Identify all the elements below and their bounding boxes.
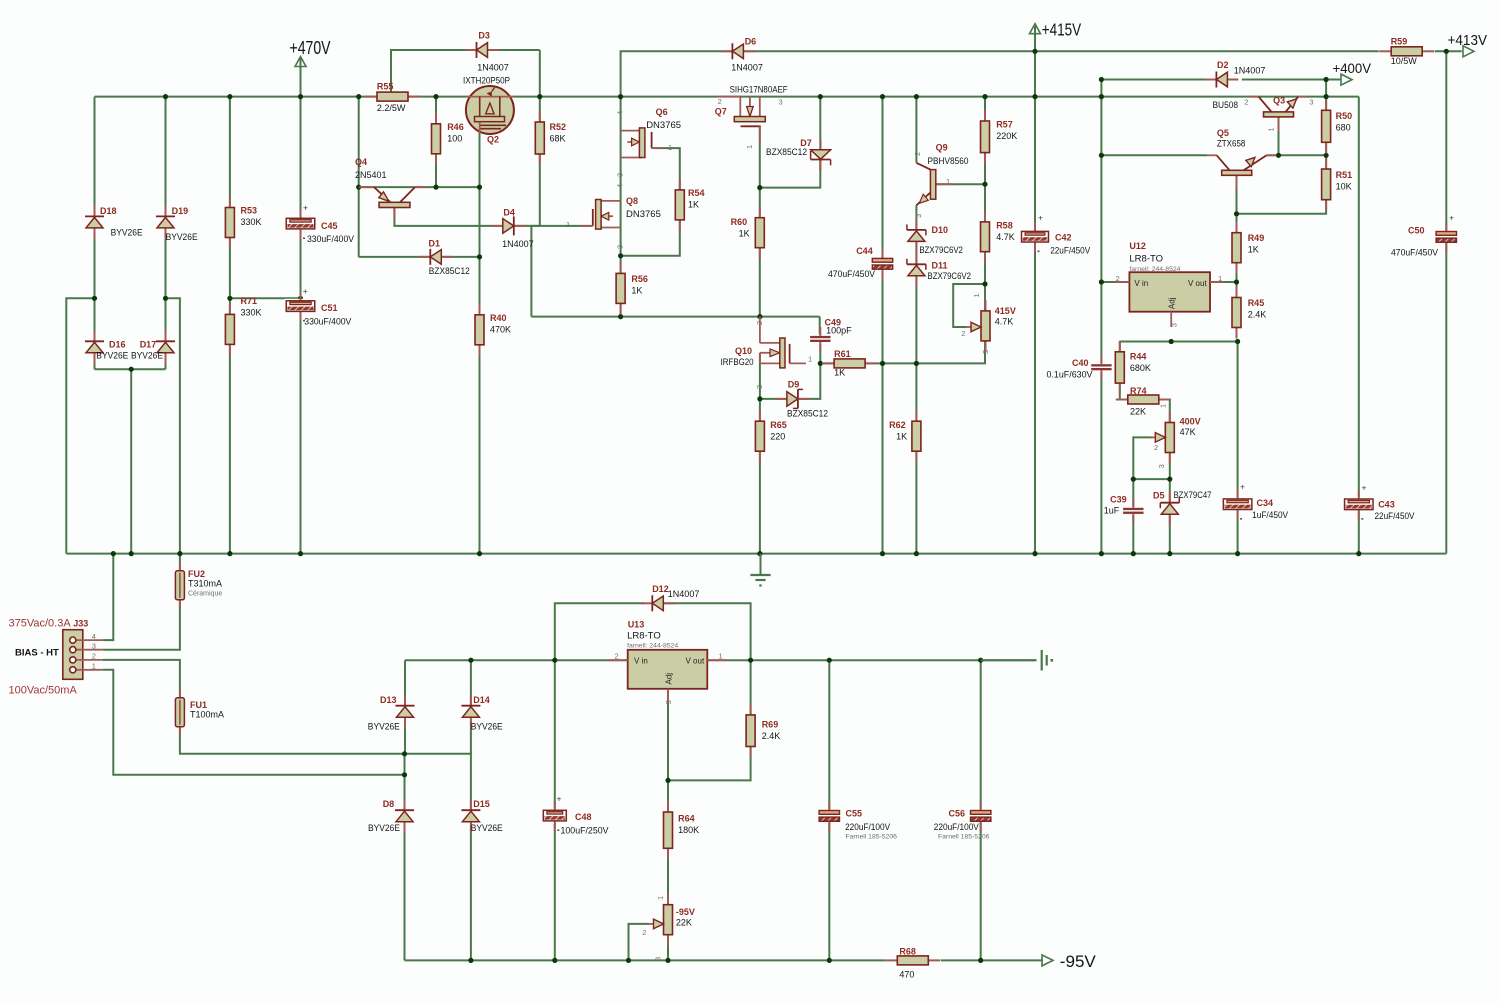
transistor Q9 bbox=[913, 143, 969, 218]
junction bbox=[1099, 94, 1104, 99]
junction bbox=[880, 94, 885, 99]
capacitor C45 bbox=[285, 203, 354, 245]
diode D15 bbox=[461, 799, 502, 833]
junction bbox=[468, 658, 473, 663]
wire C39/D5 row bbox=[1133, 478, 1170, 480]
wire D7 bottom row bbox=[760, 161, 821, 188]
wire D2 row bbox=[1101, 79, 1207, 81]
wire C34 column bbox=[1237, 342, 1239, 554]
transistor Q3 bbox=[1213, 96, 1314, 132]
wire R52 column bbox=[539, 50, 541, 226]
wire D19/D17 column bbox=[165, 97, 167, 370]
capacitor C48 bbox=[542, 794, 609, 836]
svg-text:1: 1 bbox=[946, 177, 950, 186]
svg-text:4.7K: 4.7K bbox=[995, 317, 1014, 327]
wire pot400/D5 column bbox=[1169, 451, 1171, 502]
svg-text:1: 1 bbox=[92, 662, 96, 671]
diode D5 bbox=[1153, 490, 1212, 526]
junction bbox=[978, 658, 983, 663]
wire Q8 gate loop bbox=[531, 226, 592, 317]
capacitor C49 bbox=[808, 318, 852, 351]
junction bbox=[1444, 49, 1449, 54]
svg-text:+: + bbox=[1038, 213, 1043, 223]
wire pin4 riser bbox=[103, 554, 114, 641]
junction bbox=[757, 396, 762, 401]
wire C45/C51 column bbox=[300, 58, 302, 554]
wire D1 row bbox=[359, 256, 480, 258]
svg-text:Q7: Q7 bbox=[715, 107, 727, 117]
svg-text:1: 1 bbox=[1218, 274, 1222, 283]
svg-text:R58: R58 bbox=[996, 221, 1013, 231]
svg-text:1K: 1K bbox=[1248, 244, 1259, 254]
svg-text:Q2: Q2 bbox=[487, 135, 499, 145]
wire bias vin rail bbox=[405, 659, 1037, 661]
svg-text:1: 1 bbox=[972, 293, 981, 297]
junction bbox=[1131, 477, 1136, 482]
svg-text:330uF/400V: 330uF/400V bbox=[307, 234, 354, 244]
svg-text:D3: D3 bbox=[478, 31, 490, 41]
svg-text:1: 1 bbox=[719, 652, 723, 661]
svg-text:220uF/100V: 220uF/100V bbox=[934, 822, 979, 832]
wire Q5 base column bbox=[1236, 175, 1238, 232]
junction bbox=[298, 94, 303, 99]
junction bbox=[982, 94, 987, 99]
svg-text:Adj: Adj bbox=[1168, 297, 1177, 309]
resistor R58 bbox=[981, 211, 1015, 263]
junction bbox=[618, 94, 623, 99]
svg-text:+: + bbox=[1362, 483, 1367, 493]
svg-text:3: 3 bbox=[1309, 98, 1313, 107]
svg-text:330K: 330K bbox=[241, 308, 262, 318]
svg-text:R74: R74 bbox=[1130, 386, 1147, 396]
resistor R65 bbox=[755, 410, 786, 462]
wire -95V rail right bbox=[941, 959, 1043, 961]
svg-text:22K: 22K bbox=[1130, 406, 1146, 416]
svg-text:3: 3 bbox=[981, 350, 990, 354]
junction bbox=[818, 94, 823, 99]
junction bbox=[227, 94, 232, 99]
svg-text:1: 1 bbox=[745, 145, 754, 149]
junction bbox=[827, 958, 832, 963]
svg-text:100uF/250V: 100uF/250V bbox=[561, 826, 609, 836]
diode D8 bbox=[368, 799, 414, 833]
diode D12 bbox=[641, 584, 699, 611]
junction bbox=[1324, 153, 1329, 158]
fuse FU2 bbox=[175, 563, 222, 608]
svg-text:Q10: Q10 bbox=[735, 346, 752, 356]
junction bbox=[818, 361, 823, 366]
svg-text:+470V: +470V bbox=[290, 37, 331, 58]
wire AC mid column bbox=[130, 369, 132, 553]
svg-text:0.1uF/630V: 0.1uF/630V bbox=[1047, 370, 1093, 380]
svg-text:R40: R40 bbox=[490, 313, 507, 323]
junction bbox=[1099, 153, 1104, 158]
wire Q3 base column bbox=[1278, 117, 1280, 155]
junction bbox=[1167, 551, 1172, 556]
junction bbox=[1131, 551, 1136, 556]
resistor R68 bbox=[885, 947, 940, 980]
junction bbox=[880, 551, 885, 556]
svg-text:BYV26E: BYV26E bbox=[111, 228, 143, 238]
svg-text:R60: R60 bbox=[731, 217, 748, 227]
wire R54 bottom row bbox=[621, 220, 680, 256]
junction bbox=[477, 551, 482, 556]
svg-text:D11: D11 bbox=[932, 260, 948, 270]
svg-text:1uF/450V: 1uF/450V bbox=[1252, 510, 1288, 520]
svg-text:470: 470 bbox=[899, 970, 914, 980]
svg-text:+400V: +400V bbox=[1333, 60, 1372, 76]
power +415V bbox=[1030, 20, 1082, 40]
resistor R74 bbox=[1116, 386, 1171, 417]
svg-text:C40: C40 bbox=[1072, 358, 1089, 368]
svg-text:R49: R49 bbox=[1248, 233, 1265, 243]
wire ground rail bbox=[66, 553, 1446, 555]
svg-text:C43: C43 bbox=[1378, 500, 1395, 510]
wire Q10 source column bbox=[759, 353, 761, 421]
wire pin2 to FU1 bbox=[103, 660, 180, 698]
junction bbox=[477, 254, 482, 259]
junction bbox=[982, 182, 987, 187]
junction bbox=[1169, 339, 1174, 344]
svg-text:470uF/450V: 470uF/450V bbox=[1391, 247, 1438, 257]
svg-text:BYV26E: BYV26E bbox=[166, 232, 198, 242]
svg-text:Q8: Q8 bbox=[626, 196, 638, 206]
svg-text:1K: 1K bbox=[834, 368, 845, 378]
label 375Vac bbox=[9, 617, 72, 629]
svg-text:22uF/450V: 22uF/450V bbox=[1050, 246, 1090, 256]
svg-text:D15: D15 bbox=[473, 799, 490, 809]
wire C55 column bbox=[828, 660, 830, 810]
svg-text:DN3765: DN3765 bbox=[626, 209, 661, 220]
diode D11 bbox=[907, 253, 971, 287]
junction bbox=[1167, 477, 1172, 482]
svg-text:2: 2 bbox=[913, 152, 922, 156]
svg-text:680K: 680K bbox=[1130, 363, 1151, 373]
svg-text:3: 3 bbox=[755, 385, 764, 389]
resistor R51 bbox=[1322, 158, 1353, 211]
svg-text:BYV26E: BYV26E bbox=[471, 721, 503, 731]
wire R60 column bbox=[759, 248, 761, 317]
svg-text:BYV26E: BYV26E bbox=[131, 351, 163, 361]
svg-text:2N5401: 2N5401 bbox=[355, 170, 387, 180]
svg-text:R45: R45 bbox=[1248, 298, 1265, 308]
transistor Q7 bbox=[715, 84, 788, 149]
svg-text:D4: D4 bbox=[503, 208, 515, 218]
svg-text:400V: 400V bbox=[1180, 417, 1201, 427]
svg-text:100Vac/50mA: 100Vac/50mA bbox=[9, 685, 78, 697]
capacitor C44 bbox=[828, 246, 895, 280]
wire Q4 collector row bbox=[359, 186, 480, 188]
svg-text:330uF/400V: 330uF/400V bbox=[304, 317, 351, 327]
svg-text:R56: R56 bbox=[631, 274, 648, 284]
junction bbox=[757, 551, 762, 556]
svg-text:IXTH20P50P: IXTH20P50P bbox=[463, 75, 510, 86]
svg-text:PBHV8560: PBHV8560 bbox=[928, 156, 969, 167]
wire C49 bottom bbox=[819, 344, 821, 364]
svg-text:1K: 1K bbox=[896, 432, 907, 442]
capacitor C40 bbox=[1047, 355, 1114, 379]
pot 415V pin labels bbox=[961, 293, 990, 354]
svg-text:D18: D18 bbox=[100, 206, 117, 216]
resistor R50 bbox=[1322, 99, 1353, 153]
svg-text:4.7K: 4.7K bbox=[996, 232, 1015, 242]
diode D16 bbox=[85, 330, 128, 364]
svg-text:3: 3 bbox=[92, 642, 96, 651]
svg-text:D6: D6 bbox=[745, 37, 757, 47]
junction bbox=[468, 958, 473, 963]
junction bbox=[552, 658, 557, 663]
svg-text:V out: V out bbox=[686, 657, 705, 666]
resistor R71 bbox=[225, 296, 261, 355]
svg-text:180K: 180K bbox=[678, 825, 699, 835]
wire R44-R74 corner bbox=[1120, 383, 1128, 399]
transistor Q8 bbox=[566, 184, 661, 249]
wire pot400 wiper loop bbox=[1133, 437, 1152, 507]
wire D12 right leg bbox=[663, 603, 751, 660]
svg-text:1K: 1K bbox=[688, 200, 699, 210]
capacitor C55 bbox=[817, 802, 890, 833]
svg-text:220K: 220K bbox=[996, 131, 1017, 141]
wire D19 to FU2 column bbox=[166, 298, 180, 571]
svg-text:D19: D19 bbox=[172, 206, 189, 216]
wire adj column U13 bbox=[667, 689, 669, 812]
svg-text:Farnell 185-5206: Farnell 185-5206 bbox=[846, 834, 898, 841]
svg-text:3: 3 bbox=[779, 97, 783, 106]
wire C43 column bbox=[1358, 97, 1360, 554]
svg-text:R68: R68 bbox=[899, 947, 916, 957]
svg-text:D10: D10 bbox=[932, 225, 949, 235]
potentiometer -95V bbox=[648, 894, 695, 946]
svg-text:1: 1 bbox=[566, 220, 570, 229]
svg-text:+: + bbox=[1240, 482, 1245, 492]
svg-text:R50: R50 bbox=[1336, 111, 1353, 121]
wire U12 input column bbox=[1100, 80, 1102, 554]
svg-text:22uF/450V: 22uF/450V bbox=[1375, 511, 1415, 521]
svg-text:BZX79C6V2: BZX79C6V2 bbox=[928, 271, 972, 281]
svg-text:22K: 22K bbox=[676, 917, 692, 927]
junction bbox=[982, 281, 987, 286]
svg-text:BZX79C47: BZX79C47 bbox=[1174, 490, 1212, 500]
junction bbox=[356, 94, 361, 99]
capacitor C50 bbox=[1391, 213, 1458, 258]
diode D4 bbox=[492, 208, 534, 249]
svg-text:ZTX658: ZTX658 bbox=[1217, 139, 1246, 149]
diode D14 bbox=[461, 695, 502, 732]
resistor R64 bbox=[664, 801, 700, 859]
svg-text:1N4007: 1N4007 bbox=[731, 63, 763, 73]
wire Q6 gate to R54 bbox=[652, 148, 680, 190]
wire D12 loop bbox=[555, 603, 645, 660]
svg-text:47K: 47K bbox=[1180, 427, 1196, 437]
power +400V arrow bbox=[1333, 60, 1372, 85]
wire R69 bottom loop bbox=[668, 747, 751, 781]
svg-text:C55: C55 bbox=[846, 808, 863, 818]
wire R65 column bbox=[759, 451, 761, 554]
wire zener column lower bbox=[915, 205, 917, 553]
junction bbox=[477, 185, 482, 190]
svg-text:2: 2 bbox=[1244, 98, 1248, 107]
transistor Q5 bbox=[1207, 128, 1276, 190]
junction bbox=[914, 94, 919, 99]
svg-text:Q6: Q6 bbox=[656, 107, 668, 117]
wire R64 to trimmer bbox=[667, 848, 669, 904]
diode D9 bbox=[776, 380, 828, 419]
junction bbox=[1032, 49, 1037, 54]
connector J33 bbox=[63, 619, 103, 680]
svg-text:SIHG17N80AEF: SIHG17N80AEF bbox=[730, 84, 788, 95]
svg-text:BZX85C12: BZX85C12 bbox=[766, 147, 807, 157]
junction bbox=[298, 296, 303, 301]
diode D2 bbox=[1205, 60, 1265, 87]
svg-text:1N4007: 1N4007 bbox=[1234, 65, 1266, 75]
wire C49 column bbox=[819, 317, 821, 336]
junction bbox=[757, 185, 762, 190]
wire R61 output row bbox=[820, 341, 985, 364]
svg-text:+: + bbox=[303, 286, 308, 296]
junction bbox=[978, 958, 983, 963]
wire -95V rail bbox=[405, 959, 886, 961]
svg-text:V out: V out bbox=[1188, 279, 1207, 288]
svg-text:FU2: FU2 bbox=[188, 569, 205, 579]
svg-text:1uF: 1uF bbox=[1104, 506, 1120, 516]
svg-text:4: 4 bbox=[92, 632, 96, 641]
junction bbox=[1324, 77, 1329, 82]
svg-text:2: 2 bbox=[1116, 274, 1120, 283]
resistor R44 bbox=[1115, 341, 1151, 394]
svg-text:+415V: +415V bbox=[1042, 20, 1082, 40]
svg-text:3: 3 bbox=[1157, 464, 1166, 468]
svg-text:R62: R62 bbox=[889, 420, 906, 430]
wire D18/D16 column bbox=[94, 97, 96, 370]
svg-text:R65: R65 bbox=[770, 420, 787, 430]
power +470V bbox=[290, 37, 331, 67]
junction bbox=[1324, 94, 1329, 99]
junction bbox=[163, 94, 168, 99]
svg-text:3: 3 bbox=[616, 245, 625, 249]
junction bbox=[1099, 77, 1104, 82]
svg-text:R64: R64 bbox=[678, 814, 695, 824]
transistor Q4 bbox=[355, 157, 426, 218]
svg-text:2: 2 bbox=[1154, 443, 1158, 452]
svg-text:C45: C45 bbox=[321, 221, 338, 231]
svg-text:FU1: FU1 bbox=[190, 700, 207, 710]
svg-text:R52: R52 bbox=[550, 122, 567, 132]
wire R44 top lead bbox=[1119, 342, 1121, 352]
junction bbox=[129, 367, 134, 372]
svg-text:1: 1 bbox=[808, 355, 812, 364]
svg-text:1N4007: 1N4007 bbox=[477, 63, 509, 73]
capacitor C51 bbox=[285, 286, 352, 327]
svg-text:Adj: Adj bbox=[665, 673, 674, 685]
transistor Q10 bbox=[721, 317, 813, 389]
svg-text:1K: 1K bbox=[631, 286, 642, 296]
wire +415V stem bbox=[1034, 25, 1036, 97]
svg-text:D13: D13 bbox=[380, 695, 397, 705]
resistor R61 bbox=[822, 349, 877, 378]
junction bbox=[433, 185, 438, 190]
junction bbox=[402, 751, 407, 756]
junction bbox=[1032, 551, 1037, 556]
svg-text:1K: 1K bbox=[739, 228, 750, 238]
resistor R55 bbox=[365, 82, 420, 114]
junction bbox=[537, 94, 542, 99]
svg-text:C42: C42 bbox=[1055, 232, 1072, 242]
svg-text:BZX85C12: BZX85C12 bbox=[429, 266, 470, 276]
svg-text:V in: V in bbox=[1134, 279, 1148, 288]
resistor R49 bbox=[1232, 222, 1264, 274]
svg-text:100: 100 bbox=[447, 133, 462, 143]
wire FU1 to D15 row bbox=[180, 729, 471, 810]
svg-text:1: 1 bbox=[1267, 127, 1276, 131]
wire Q7 source column bbox=[759, 126, 761, 217]
wire adj row bbox=[1120, 341, 1238, 343]
svg-text:T100mA: T100mA bbox=[190, 709, 224, 719]
trimmer labels2 bbox=[642, 928, 662, 961]
svg-text:BIAS - HT: BIAS - HT bbox=[15, 647, 59, 658]
diode D13 bbox=[368, 695, 415, 732]
label BIAS-HT bbox=[15, 647, 59, 658]
svg-text:470K: 470K bbox=[490, 325, 511, 335]
junction bbox=[92, 296, 97, 301]
junction bbox=[757, 314, 762, 319]
wire R46 column bbox=[435, 97, 437, 188]
svg-text:Céramique: Céramique bbox=[188, 591, 222, 598]
junction bbox=[177, 551, 182, 556]
junction bbox=[227, 296, 232, 301]
junction bbox=[1099, 279, 1104, 284]
junction bbox=[129, 551, 134, 556]
pot 400V pin1 label bbox=[1159, 404, 1168, 408]
svg-text:2.2/5W: 2.2/5W bbox=[377, 103, 406, 113]
wire D14 column bbox=[470, 660, 472, 706]
svg-text:R51: R51 bbox=[1336, 170, 1353, 180]
label C56 farnell bbox=[938, 834, 990, 841]
svg-text:Q3: Q3 bbox=[1273, 96, 1285, 106]
junction bbox=[618, 253, 623, 258]
wire C55 bottom bbox=[828, 821, 830, 960]
wire D8 bottom bbox=[404, 826, 406, 961]
junction bbox=[1099, 551, 1104, 556]
wire D13 column bbox=[404, 660, 406, 706]
svg-text:D5: D5 bbox=[1153, 491, 1165, 501]
capacitor C56 bbox=[934, 802, 993, 833]
junction bbox=[433, 94, 438, 99]
svg-text:BZX79C6V2: BZX79C6V2 bbox=[919, 245, 963, 255]
svg-text:R71: R71 bbox=[241, 296, 258, 306]
svg-text:+: + bbox=[1449, 213, 1454, 223]
svg-text:U13: U13 bbox=[628, 619, 645, 629]
svg-text:R46: R46 bbox=[447, 122, 464, 132]
diode D19 bbox=[156, 205, 198, 241]
svg-text:C44: C44 bbox=[856, 246, 873, 256]
svg-text:1N4007: 1N4007 bbox=[668, 589, 700, 599]
junction bbox=[298, 551, 303, 556]
resistor R45 bbox=[1232, 287, 1266, 339]
diode D10 bbox=[907, 219, 963, 255]
svg-text:1: 1 bbox=[1159, 404, 1168, 408]
svg-text:2: 2 bbox=[615, 652, 619, 661]
junction bbox=[402, 772, 407, 777]
label 100Vac bbox=[9, 685, 78, 697]
svg-text:+413V: +413V bbox=[1448, 32, 1488, 49]
svg-text:2.4K: 2.4K bbox=[762, 731, 781, 741]
resistor R69 bbox=[746, 704, 780, 758]
svg-text:IRFBG20: IRFBG20 bbox=[721, 357, 754, 368]
resistor R54 bbox=[675, 179, 704, 231]
wire C42 column bbox=[1034, 97, 1036, 554]
svg-text:Q5: Q5 bbox=[1217, 128, 1229, 138]
wire R59 to +413 bbox=[1435, 50, 1462, 52]
